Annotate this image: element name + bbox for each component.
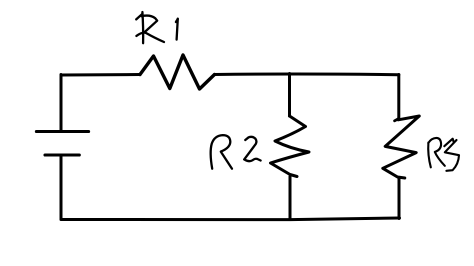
wire top right segment (215, 73, 399, 77)
label R1 (136, 12, 178, 43)
wire right upper (397, 75, 400, 119)
battery positive plate (36, 130, 88, 133)
resistor R3 (395, 119, 399, 121)
resistor R2 (271, 116, 310, 177)
wire R2 branch lower (289, 177, 292, 220)
wire left lower (60, 157, 63, 220)
label R3 (428, 138, 459, 171)
wire right lower (398, 179, 401, 219)
wire R2 branch upper (288, 74, 291, 117)
wire bottom (61, 218, 400, 220)
resistor R1 (140, 55, 215, 89)
wire left upper (60, 75, 63, 131)
label R2 (211, 135, 261, 169)
wire top left segment (61, 73, 140, 77)
battery negative plate (45, 153, 79, 156)
